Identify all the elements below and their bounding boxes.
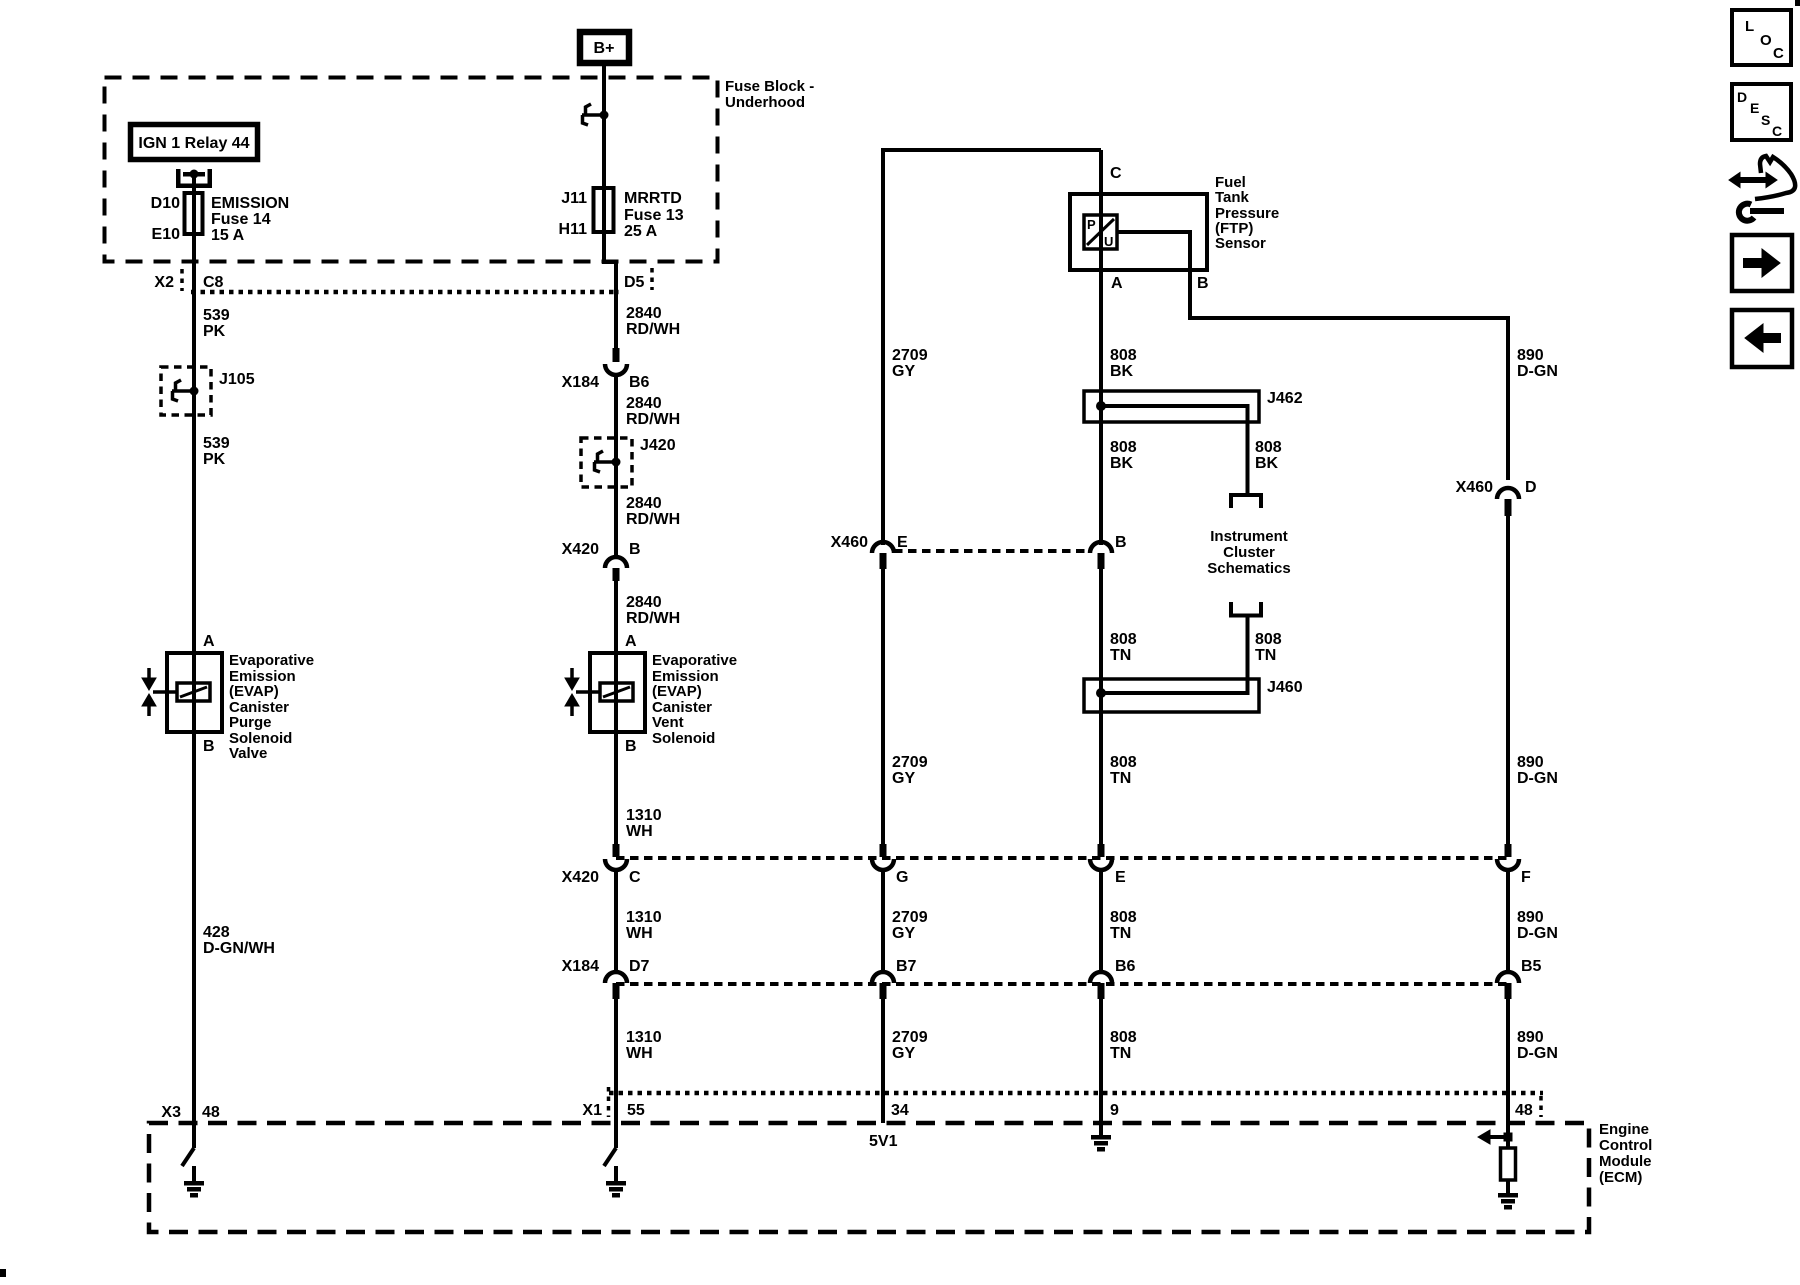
connector X2 dotted row [191,290,619,295]
svg-text:D: D [1525,479,1537,496]
connector row X184 dashed line [616,982,1508,986]
svg-text:890: 890 [1517,347,1544,364]
svg-text:2840: 2840 [626,594,662,611]
svg-text:U: U [1104,234,1113,249]
svg-text:D-GN: D-GN [1517,770,1558,787]
fuse F2 MRRTD Fuse 13 25 A [594,188,614,232]
svg-text:(EVAP): (EVAP) [652,683,702,700]
svg-text:X184: X184 [562,958,599,975]
svg-text:1310: 1310 [626,807,662,824]
svg-text:1310: 1310 [626,1029,662,1046]
svg-text:55: 55 [627,1102,645,1119]
svg-text:808: 808 [1110,909,1137,926]
svg-text:RD/WH: RD/WH [626,511,680,528]
svg-text:F: F [1521,869,1531,886]
svg-text:GY: GY [892,770,915,787]
svg-text:X460: X460 [1456,479,1493,496]
connector X420 pin F [1505,844,1512,857]
svg-text:IGN 1 Relay 44: IGN 1 Relay 44 [138,135,249,152]
svg-text:808: 808 [1255,439,1282,456]
svg-text:Instrument: Instrument [1210,528,1288,545]
svg-text:X460: X460 [831,534,868,551]
ground col5 [1498,1193,1518,1198]
connector X420 pin G [880,844,887,857]
svg-text:B: B [629,541,641,558]
svg-text:TN: TN [1110,647,1131,664]
svg-text:890: 890 [1517,909,1544,926]
svg-text:Engine: Engine [1599,1121,1649,1138]
off-page bracket lower [1231,602,1261,616]
svg-text:E: E [1750,100,1759,116]
svg-text:TN: TN [1110,1045,1131,1062]
svg-text:D-GN: D-GN [1517,1045,1558,1062]
svg-text:X2: X2 [154,274,174,291]
svg-text:RD/WH: RD/WH [626,321,680,338]
svg-text:Valve: Valve [229,745,267,762]
svg-text:808: 808 [1110,754,1137,771]
splice pack J462 [1084,391,1259,422]
svg-text:RD/WH: RD/WH [626,411,680,428]
svg-text:X184: X184 [562,374,599,391]
svg-text:Module: Module [1599,1153,1652,1170]
svg-text:539: 539 [203,435,230,452]
svg-text:E: E [897,534,908,551]
svg-text:34: 34 [891,1102,909,1119]
svg-text:EMISSION: EMISSION [211,195,289,212]
svg-text:2709: 2709 [892,754,928,771]
svg-text:WH: WH [626,925,653,942]
svg-text:428: 428 [203,924,230,941]
vent valve symbol [570,668,574,679]
svg-text:Cluster: Cluster [1223,544,1275,561]
svg-text:TN: TN [1110,925,1131,942]
connector row X1 dotted line [609,1091,1543,1096]
splice J420 [581,438,632,487]
svg-text:RD/WH: RD/WH [626,610,680,627]
svg-text:D7: D7 [629,958,650,975]
icon wrench/arrows [1738,177,1768,183]
svg-text:D-GN/WH: D-GN/WH [203,940,275,957]
svg-text:890: 890 [1517,754,1544,771]
FTP P/U element [1084,215,1117,249]
ground col4 [1091,1135,1111,1140]
connector X420 pin B [605,557,627,568]
svg-text:Solenoid: Solenoid [652,730,715,747]
svg-text:B: B [625,738,637,755]
purge valve symbol [147,668,151,679]
page mark top right [1795,0,1800,6]
svg-text:X3: X3 [161,1104,181,1121]
svg-text:(EVAP): (EVAP) [229,683,279,700]
svg-text:2709: 2709 [892,1029,928,1046]
svg-text:L: L [1745,18,1754,35]
connector X184 pin D7 [605,972,627,983]
svg-text:D-GN: D-GN [1517,363,1558,380]
icon arrow left [1732,310,1792,367]
svg-text:808: 808 [1110,439,1137,456]
svg-text:2709: 2709 [892,909,928,926]
svg-text:C: C [1110,165,1122,182]
svg-text:9: 9 [1110,1102,1119,1119]
resistor ECM internal [1501,1148,1516,1180]
svg-text:2840: 2840 [626,395,662,412]
svg-text:Underhood: Underhood [725,94,805,111]
svg-text:48: 48 [1515,1102,1533,1119]
svg-text:BK: BK [1255,455,1279,472]
svg-text:2840: 2840 [626,495,662,512]
connector X184 pin B6 lower [1090,972,1112,983]
svg-text:C8: C8 [203,274,224,291]
svg-text:808: 808 [1110,347,1137,364]
svg-text:C: C [1773,45,1784,62]
icon LOC [1732,10,1791,65]
ECM switch and ground col1 [182,1148,194,1166]
svg-text:GY: GY [892,1045,915,1062]
svg-text:D-GN: D-GN [1517,925,1558,942]
svg-text:MRRTD: MRRTD [624,190,682,207]
svg-text:BK: BK [1110,455,1134,472]
svg-text:Purge: Purge [229,714,272,731]
svg-text:E: E [1115,869,1126,886]
svg-text:X420: X420 [562,541,599,558]
FTP B wire [1117,232,1508,480]
svg-text:A: A [625,633,637,650]
svg-text:TN: TN [1255,647,1276,664]
svg-text:Control: Control [1599,1137,1652,1154]
fuse F1 EMISSION Fuse 14 15 A [192,176,196,240]
svg-text:15 A: 15 A [211,227,245,244]
wire col3 top run [883,150,1101,545]
svg-text:25 A: 25 A [624,223,658,240]
svg-text:X420: X420 [562,869,599,886]
icon DESC [1732,84,1791,140]
connector X460 pin B [1090,542,1112,553]
svg-text:J420: J420 [640,437,676,454]
svg-text:B6: B6 [1115,958,1136,975]
svg-text:Schematics: Schematics [1207,560,1290,577]
svg-text:C: C [629,869,641,886]
svg-text:890: 890 [1517,1029,1544,1046]
connector X460 pin D [1497,488,1519,499]
svg-text:2840: 2840 [626,305,662,322]
svg-text:539: 539 [203,307,230,324]
svg-text:Fuse 13: Fuse 13 [624,207,684,224]
svg-text:A: A [1111,275,1123,292]
svg-text:B7: B7 [896,958,917,975]
connector X184 pin B5 [1497,972,1519,983]
svg-text:H11: H11 [559,221,588,238]
svg-text:D5: D5 [624,274,645,291]
svg-text:E10: E10 [152,226,181,243]
svg-text:WH: WH [626,823,653,840]
svg-text:(ECM): (ECM) [1599,1169,1642,1186]
svg-text:BK: BK [1110,363,1134,380]
clip terminal below B+ [582,113,604,117]
svg-text:S: S [1761,112,1770,128]
svg-text:B+: B+ [594,40,615,57]
svg-text:PK: PK [203,451,226,468]
svg-text:GY: GY [892,925,915,942]
svg-text:5V1: 5V1 [869,1133,898,1150]
svg-text:Fuse 14: Fuse 14 [211,211,271,228]
svg-text:J462: J462 [1267,390,1303,407]
svg-text:808: 808 [1255,631,1282,648]
connector X184 pin B7 [872,972,894,983]
ECM switch and ground col2 [604,1148,616,1166]
svg-text:48: 48 [202,1104,220,1121]
connector row X420 dashed line [616,856,1508,860]
wire col2 vent to X420 C [614,732,618,846]
svg-text:808: 808 [1110,1029,1137,1046]
svg-text:Evaporative: Evaporative [652,652,737,669]
svg-text:G: G [896,869,908,886]
ECM box [149,1123,1589,1232]
connector X460 dashed line [894,549,1090,553]
svg-text:Evaporative: Evaporative [229,652,314,669]
relay IGN 1 Relay 44 [131,125,258,160]
svg-text:GY: GY [892,363,915,380]
off-page bracket upper [1231,495,1261,508]
svg-text:Fuse Block -: Fuse Block - [725,78,814,95]
svg-text:C: C [1772,123,1782,139]
icon arrow right [1732,235,1792,291]
svg-text:1310: 1310 [626,909,662,926]
wire B+ to fuse 13 [602,63,606,235]
svg-text:Sensor: Sensor [1215,235,1266,252]
page mark bottom left [0,1269,6,1277]
svg-text:O: O [1760,32,1772,49]
svg-text:B: B [203,738,215,755]
svg-text:B: B [1115,534,1127,551]
svg-text:D10: D10 [151,195,180,212]
svg-text:B5: B5 [1521,958,1542,975]
wire fuse13 to D5 jog [604,232,616,350]
svg-text:WH: WH [626,1045,653,1062]
svg-text:Tank: Tank [1215,189,1250,206]
svg-text:B: B [1197,275,1209,292]
connector X420 pin C [613,844,620,857]
ECM internal arrow col5 [1489,1135,1508,1139]
svg-text:P: P [1087,217,1096,232]
sensor FTP box [1070,194,1207,270]
svg-text:J460: J460 [1267,679,1303,696]
wire col1 purge to ECM [192,732,196,1148]
connector X420 pin E [1098,844,1105,857]
connector X184 pin B6 [613,348,620,362]
svg-text:D: D [1737,89,1747,105]
svg-text:2709: 2709 [892,347,928,364]
power symbol B+ [580,32,629,63]
svg-text:TN: TN [1110,770,1131,787]
svg-text:B6: B6 [629,374,650,391]
connector X460 pin E [872,542,894,553]
wire col1 fuse to EVAP purge [192,234,196,655]
svg-text:A: A [203,633,215,650]
splice J105 [161,367,211,415]
svg-text:808: 808 [1110,631,1137,648]
svg-text:PK: PK [203,323,226,340]
relay contact symbol [176,169,181,188]
splice pack J460 [1084,679,1259,712]
svg-text:J11: J11 [561,190,587,207]
branch wire to J460 [1101,616,1248,694]
svg-text:J105: J105 [219,371,255,388]
svg-text:X1: X1 [582,1102,602,1119]
fuse block underhood box [105,78,718,262]
svg-text:Vent: Vent [652,714,684,731]
